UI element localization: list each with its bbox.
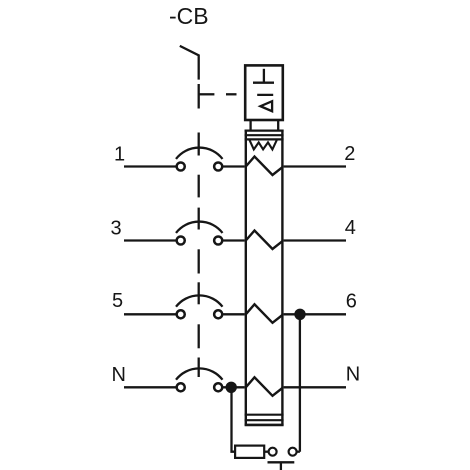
svg-text:1: 1 — [114, 144, 125, 166]
svg-text:6: 6 — [346, 291, 357, 313]
svg-text:-CB: -CB — [169, 3, 209, 29]
svg-text:2: 2 — [344, 143, 355, 165]
svg-text:N: N — [346, 364, 360, 386]
svg-text:N: N — [112, 364, 126, 386]
svg-text:4: 4 — [345, 217, 356, 239]
svg-text:3: 3 — [111, 218, 122, 240]
svg-text:5: 5 — [112, 290, 123, 312]
